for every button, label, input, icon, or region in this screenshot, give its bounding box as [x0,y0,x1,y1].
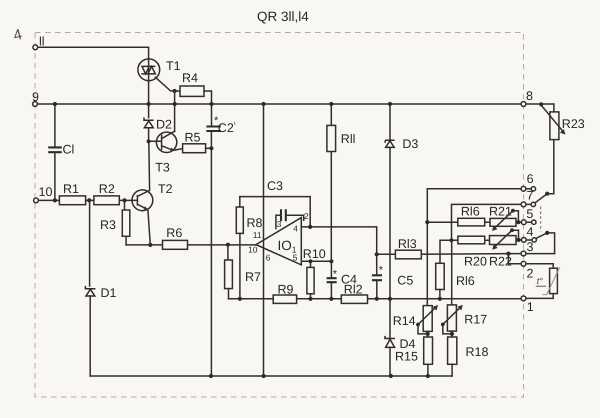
svg-text:R10: R10 [303,247,326,261]
svg-text:R5: R5 [185,130,201,144]
svg-text:QR 3ll,l4: QR 3ll,l4 [257,9,309,24]
wire node 7 column down to R17 [451,240,453,305]
resistor R13 [377,253,396,255]
svg-text:R2: R2 [99,182,115,196]
junction R8 column at ground rail [238,297,242,301]
wire pin 5 line [301,260,331,262]
resistor R18 [448,337,457,364]
svg-text:11: 11 [253,230,262,240]
junction C1 bottom [53,198,57,202]
resistor R20 [458,236,485,244]
terminal 9 [33,102,38,107]
dashed module border [35,33,524,398]
svg-text:R9: R9 [278,283,294,297]
junction D3 column at ground rail [388,297,392,301]
capacitor C1 [48,147,62,152]
svg-text:4: 4 [293,223,298,233]
terminal 5 [521,220,526,225]
svg-text:2: 2 [304,211,309,221]
wire node 11 top rail [35,47,148,59]
svg-text:R8: R8 [247,216,263,230]
resistor R16 (vertical) [436,263,445,289]
junction dots on node 9 [53,102,57,106]
triac T1 [138,59,160,81]
svg-text:5: 5 [526,207,533,221]
svg-text:ll: ll [39,35,45,49]
terminal 4 [521,238,526,243]
junction node 6 column at R16 row [425,220,429,224]
svg-text:7: 7 [527,189,534,203]
svg-text:10: 10 [39,185,53,199]
resistor R8 [239,197,241,207]
trimmer R22 [490,236,517,245]
svg-text:R17: R17 [464,313,487,327]
junction node 7 column at R20 row [449,238,453,242]
svg-text:Rl6: Rl6 [461,205,480,219]
capacitor on pins 3-2 of IO1 [276,215,304,228]
wire terminal 2 line to thermistor [508,254,553,269]
switch arm at 7 [535,194,547,203]
resistor R1 [59,196,85,205]
svg-text:*: * [379,265,384,277]
trimmer R17 [447,305,456,331]
resistor R12 [341,295,367,303]
svg-text:R6: R6 [166,226,182,240]
wire IO1 supply column [263,104,265,376]
rheostat R23 [550,112,559,140]
wire D1 column [89,200,92,376]
resistor R5 [183,144,206,153]
svg-text:R21: R21 [489,205,512,219]
resistor R16 [458,218,485,226]
wire R20 row [452,239,535,241]
junction C3 loop on pin4 line [308,225,312,229]
svg-text:C2: C2 [218,121,234,135]
node 9 main rail [35,104,554,112]
svg-text:D3: D3 [402,137,418,151]
resistor R2 [94,196,119,205]
svg-text:Cl: Cl [63,143,75,157]
resistor R3 [124,200,126,210]
wire L-link R20 row to R16 vertical [440,240,452,263]
terminal 2 [521,261,526,266]
svg-text:T3: T3 [155,161,170,175]
svg-text:R15: R15 [395,350,418,364]
svg-text:R20: R20 [464,255,487,269]
resistor R9 [273,295,296,303]
svg-text:R1: R1 [63,182,79,196]
trimmer R21 [490,218,516,226]
resistor R10 [310,261,312,267]
wire terminal 6 line and column to R14 [427,189,533,306]
diode D3 [385,140,394,147]
resistor R11 [330,104,332,261]
svg-text:*: * [214,115,219,127]
wire R23 lead to switch arm [547,140,554,194]
wire D3 column [389,104,391,376]
svg-text:R4: R4 [182,71,198,85]
svg-text:C5: C5 [397,274,413,288]
wire terminal 10 line [36,199,137,201]
terminal 11 [33,45,38,50]
svg-text:R7: R7 [245,270,261,284]
junction gate-R4 [173,89,177,93]
switch arm at 4 [536,233,547,238]
svg-text:3: 3 [527,240,534,254]
wire R16 row [427,221,534,223]
wire D2 column [148,104,150,141]
svg-text:Rl3: Rl3 [398,237,417,251]
svg-text:Rl2: Rl2 [344,283,363,297]
svg-text:R23: R23 [562,117,585,131]
node bottom rail [90,375,452,377]
svg-text:9: 9 [32,90,39,104]
terminal 10 [34,198,39,203]
terminal 6 [521,186,526,191]
svg-text:6: 6 [266,253,271,263]
svg-text:C3: C3 [267,179,283,193]
svg-text:t°: t° [537,276,544,286]
diode D1 (zener) [85,286,95,296]
junction terminal 2 stub [506,252,510,256]
capacitor C2 [206,127,220,132]
transistor T3 [156,132,176,152]
svg-text:3: 3 [277,219,282,229]
junction T2 emitter [148,243,152,247]
resistor R4 [175,90,180,92]
wire C3 feedback loop [240,197,310,227]
svg-text:R18: R18 [466,345,489,359]
wire R13 to terminal 3 node and switch 4 arm [421,233,554,254]
junction R2-T2 base [122,198,126,202]
svg-text:8: 8 [526,89,533,103]
resistor R15 [424,337,433,364]
trimmer R14 [423,306,432,332]
junction R5-C2 column [209,146,213,150]
terminal 3 [521,251,526,256]
wire terminal 1 to thermistor [524,294,554,299]
svg-text:1: 1 [527,300,534,314]
wire C1 column [54,104,56,200]
junction D2-T3 base-T2 collector [147,139,151,143]
junction pin5-C4 column [329,259,333,263]
junction R10 top [308,259,312,263]
wire T3 collector column [174,91,176,131]
wire pin 4 output line [301,227,376,254]
svg-text:R14: R14 [393,314,416,328]
svg-text:T2: T2 [158,182,173,196]
svg-text:4: 4 [527,225,534,239]
svg-text:D1: D1 [101,286,117,300]
svg-text:Rl6: Rl6 [456,274,475,288]
mechanical coupling dashed link [540,207,542,232]
svg-text:10: 10 [248,245,258,255]
capacitor C5 [376,254,378,298]
junction R13-C5 node [375,252,379,256]
diode D2 (zener) [144,118,154,128]
svg-text:6: 6 [527,172,534,186]
node A junction R1-R2 [87,198,91,202]
junction R7 input node [226,243,230,247]
node ground rail (middle) [229,298,524,300]
terminal 7 [521,202,526,207]
op-amp IO1 [256,218,301,265]
transistor T2 [132,190,153,211]
thermistor t [550,268,558,293]
resistor R6 [163,240,188,249]
diode D4 (zener) [385,336,395,348]
svg-text:*: * [333,269,338,281]
svg-text:4: 4 [12,26,24,45]
svg-text:T1: T1 [166,59,181,73]
terminal 8 [521,102,526,107]
resistor R7 [227,245,229,260]
terminal 1 [521,296,526,301]
svg-text:5: 5 [293,253,298,263]
wire terminal 7 line [452,204,534,240]
junction dots bottom rail [209,374,213,378]
wire T1 gate [155,77,174,91]
svg-text:D2: D2 [156,118,172,132]
svg-text:2: 2 [527,267,534,281]
svg-text:R3: R3 [100,218,116,232]
svg-text:Rll: Rll [341,132,356,146]
wire C2 column [210,104,212,376]
wire R6 input line [126,244,256,246]
capacitor C4 [330,261,332,299]
